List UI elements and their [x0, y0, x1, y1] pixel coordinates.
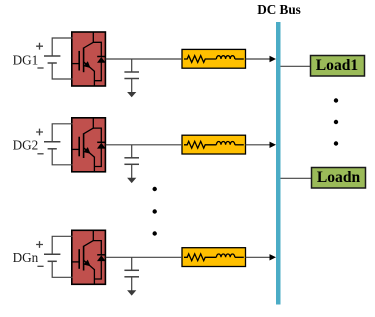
svg-text:DG1: DG1	[13, 52, 39, 67]
svg-text:Load1: Load1	[316, 57, 358, 74]
svg-text:DGn: DGn	[13, 250, 39, 265]
svg-text:DC Bus: DC Bus	[257, 2, 301, 17]
svg-text:DG2: DG2	[13, 137, 39, 152]
svg-text:Loadn: Loadn	[317, 169, 361, 186]
